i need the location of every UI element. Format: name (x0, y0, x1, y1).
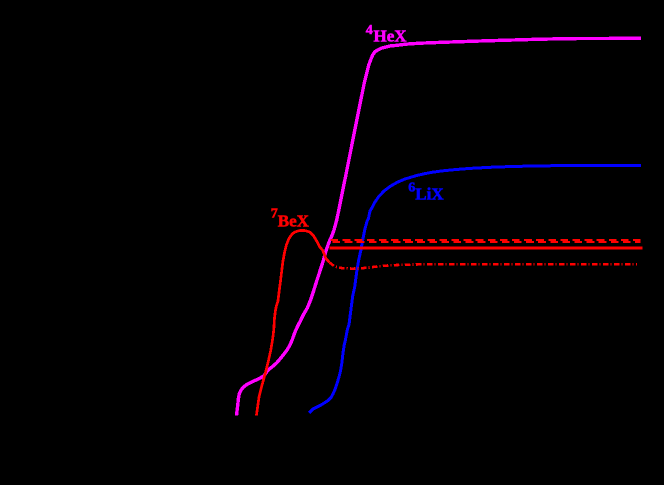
red solid horizontal line (330, 247, 643, 250)
red dash-dot line (dips then levels) (330, 263, 638, 269)
curve 4HeX (magenta S-curve) (237, 38, 642, 415)
svg-text:LiX: LiX (415, 185, 444, 204)
red dashed horizontal line lower (333, 241, 641, 243)
red dashed horizontal line upper (331, 239, 641, 241)
curve 6LiX (blue S-curve) (309, 165, 641, 413)
svg-text:7: 7 (271, 207, 278, 222)
svg-text:HeX: HeX (374, 27, 408, 46)
svg-text:BeX: BeX (278, 211, 310, 230)
curve 7BeX (red, rises to a peak then falls) (256, 230, 329, 415)
svg-text:4: 4 (366, 23, 373, 38)
svg-text:6: 6 (408, 180, 415, 195)
